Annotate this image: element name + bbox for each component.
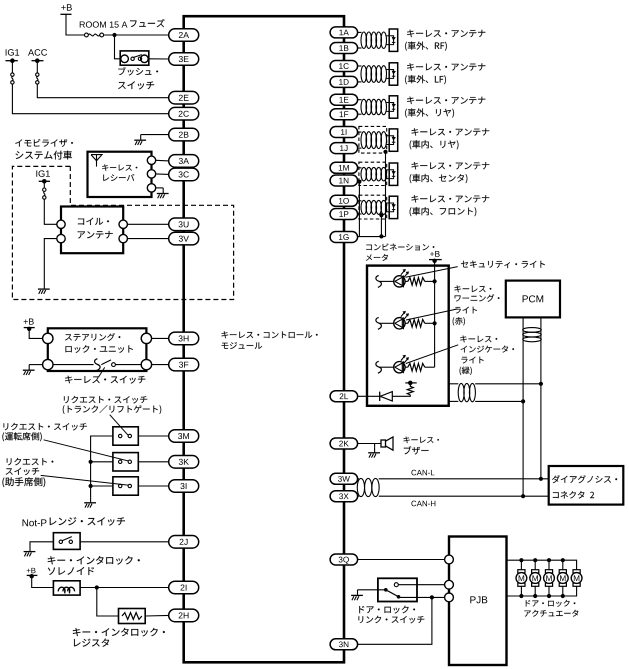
wire node to push switch (115, 35, 121, 59)
wire pin 1J to coil (358, 147, 362, 149)
wire receiver to ground (156, 187, 164, 189)
pin 1P (330, 209, 358, 220)
dashed box interior antenna 6 (359, 195, 387, 219)
wire pin 1P to coil (358, 213, 362, 215)
junction dot meter row 2 (433, 321, 437, 325)
keyless receiver box (88, 152, 152, 197)
wire request switches common (91, 436, 113, 497)
combination meter box (367, 266, 449, 406)
pin 3Q (330, 554, 358, 565)
twisted pair coil antenna 4 (361, 132, 367, 149)
pin 1G (330, 232, 358, 243)
dashed box interior antenna 4 (359, 126, 387, 153)
wire 1J return junction (385, 150, 387, 236)
wire coil antenna to pin 3U (127, 223, 169, 225)
wire pin 1G common return (358, 236, 386, 238)
wire motor 1 stubs (520, 560, 522, 570)
power IG1 (immobilizer) (36, 170, 50, 177)
pin 1N (330, 175, 358, 186)
junction dot request 3 (89, 484, 93, 488)
ground at coil antenna (38, 284, 50, 294)
wire receiver to pin 3C (156, 173, 170, 176)
twisted pair meter-PCM (458, 383, 464, 401)
pin 3U (169, 218, 199, 231)
label: keyless antenna 1 (407, 30, 485, 37)
leader/lever request switch 2 (44, 440, 129, 461)
inductor tap in meter (407, 383, 413, 395)
door lock link switch box (378, 578, 417, 601)
wire pin 1C to coil (358, 65, 362, 67)
door lock actuator motor M4 (559, 570, 566, 573)
wire pair bottom to PCM drop (475, 400, 523, 402)
leader keyless warning light (406, 309, 458, 320)
connector on ACC wire (36, 73, 39, 76)
label: keyless antenna 6 (412, 195, 490, 202)
label: request switch (trunk/liftgate) (64, 396, 147, 404)
request switch 2 contacts (119, 460, 122, 463)
wire receiver to pin 3A (156, 159, 170, 162)
label: keyless antenna 3 (407, 97, 485, 104)
keyless antenna unit 2 (389, 63, 398, 85)
twisted pair coil antenna 1 (361, 32, 367, 48)
wire pin 1B to coil (358, 47, 362, 49)
label: door lock actuator (526, 600, 576, 607)
label: keyless antenna 4 (412, 128, 490, 135)
leader keyless indicator light (406, 345, 458, 364)
label: keyless indicator light (green) (460, 336, 497, 343)
wire steering lock to pin 3H (152, 337, 170, 339)
ground at request switches (84, 497, 96, 507)
pin 2I (169, 581, 199, 594)
squiggle lead security light (376, 276, 382, 288)
junction dot meter row 1 (433, 279, 437, 283)
steering lock terminal circles (43, 333, 53, 343)
door lock actuator motor M1 (518, 570, 525, 573)
label: door lock link switch (359, 606, 415, 614)
label: keyless warning light (red) (454, 285, 491, 292)
pin 1J (330, 143, 358, 154)
label: push switch (118, 67, 158, 75)
request switch 1 contacts (119, 434, 122, 437)
wire meter to PCM pair top (449, 383, 459, 385)
PJB terminal circles (445, 555, 454, 564)
squiggle lead keyless indicator light (376, 361, 382, 373)
label: keyless antenna 5 (412, 162, 490, 169)
power IG1 (6, 49, 20, 56)
wire LED to resistor (security) (405, 280, 408, 282)
diagnosis connector 2 box (549, 466, 624, 505)
wire motor 2 stubs (534, 560, 536, 570)
wire pin 2K to buzzer (358, 443, 382, 445)
pin 2J (169, 536, 199, 549)
wire pin 1D to coil (358, 81, 362, 83)
junction dot motor 2 top (533, 558, 537, 562)
twisted pair CAN (357, 478, 364, 496)
ground at 2B (134, 135, 146, 145)
wire 1P return junction (380, 214, 382, 236)
label: Not-P range switch (23, 519, 47, 526)
resistor R1 zigzag (122, 613, 142, 620)
label: keyless buzzer (404, 437, 439, 444)
pin 3I (169, 480, 199, 493)
wire to security light (379, 280, 393, 282)
pin 1E (330, 94, 358, 105)
resistor of keyless indicator light (408, 363, 425, 371)
pin 3V (169, 232, 199, 245)
power +B (key interlock) (27, 568, 36, 573)
door lock actuator bottom rail (507, 586, 577, 596)
ground stub at buzzer (374, 444, 376, 448)
wire coil to antenna unit 6 (386, 202, 389, 204)
coil antenna box (61, 207, 123, 254)
pin 3F (169, 358, 199, 371)
pin 3C (169, 168, 199, 181)
wire pin 2L to diode (358, 395, 380, 397)
pin 1C (330, 61, 358, 72)
power +B (room fuse feed) (61, 4, 72, 10)
push switch S1 right terminal (141, 55, 149, 63)
wire coil to antenna unit 1 (386, 35, 389, 37)
twisted pair coil antenna 3 (361, 99, 367, 114)
junction dot solenoid node (95, 585, 99, 589)
pin 2H (169, 609, 199, 622)
label: combination meter (366, 243, 434, 250)
request switch 1 box (113, 427, 138, 445)
wire pin 1M to coil (358, 167, 362, 169)
leader security light (406, 267, 458, 278)
keyless buzzer BZ1 (381, 440, 386, 447)
label: keyless control module (222, 331, 318, 338)
pin 3X (330, 491, 358, 502)
label: request switch (passenger side) (7, 458, 54, 465)
wire resistor to +B rail (security) (425, 280, 435, 282)
ground at buzzer (368, 447, 380, 457)
Not-P range switch contacts and lever (59, 540, 62, 543)
squiggle lead keyless warning light (376, 317, 382, 329)
twisted pair coil antenna 2 (361, 66, 367, 83)
ground at Not-P switch (24, 546, 36, 556)
junction dot 1G return (379, 234, 383, 238)
wire node to resistor (97, 588, 119, 617)
wire ACC to pin 2E (37, 84, 169, 98)
receiver terminal circles (147, 156, 155, 164)
label: with immobilizer system (15, 139, 73, 147)
wire resistor to +B rail (keyless warning) (425, 322, 435, 324)
wire PCM drop right (540, 317, 542, 478)
request switch 3 box (113, 477, 138, 495)
twisted pair below PCM (523, 328, 542, 333)
wire coil to antenna unit 3 (386, 102, 389, 104)
wire resistor to pin 2H (145, 614, 169, 617)
coil antenna terminal circles (57, 220, 65, 228)
label: keyless receiver (102, 164, 137, 171)
wire fuse to pin 2A (104, 34, 170, 36)
keyless switch squiggle (95, 359, 101, 371)
pin 3E (169, 53, 199, 66)
pin 2A (169, 29, 199, 42)
PCM box (506, 281, 560, 318)
pin 1D (330, 76, 358, 87)
wire steering lock to ground (29, 364, 42, 366)
junction dot pair top (539, 382, 543, 386)
wire solenoid to pin 2I (80, 587, 169, 589)
junction dot motor 3 bottom (547, 594, 551, 598)
wire request switch 2 branch (91, 461, 113, 463)
wire request switch 2 to pin 3K (138, 461, 169, 463)
wire resistor to +B rail (keyless indicator) (425, 366, 435, 368)
key interlock solenoid L1 box (53, 581, 80, 595)
junction dot motor 4 top (561, 558, 565, 562)
leader/lever request switch 3 (41, 475, 129, 485)
wire pin 1A to coil (358, 31, 362, 33)
wire coil to antenna unit 4 (386, 135, 389, 137)
wire pin 3W stub (358, 478, 360, 480)
keyless antenna unit 1 (389, 29, 398, 51)
pin 3A (169, 155, 199, 168)
push switch S1 left terminal (121, 55, 129, 63)
wire diode to coil symbol (392, 395, 410, 396)
wire motor 3 stubs (548, 560, 550, 570)
wire pin 1E to coil (358, 99, 362, 101)
wire S1 to pin 3E (148, 58, 169, 60)
wire node to pin 3N (358, 597, 432, 644)
LED keyless warning light (394, 318, 405, 329)
wire Not-P switch to pin 2J (80, 541, 169, 543)
Not-P range switch box (53, 533, 80, 550)
twisted pair coil antenna 5 (361, 167, 367, 181)
wire link switch to PJB 2 (398, 584, 444, 586)
dashed box interior antenna 5 (359, 162, 387, 185)
pin 1A (330, 27, 358, 38)
junction dot CAN-L (539, 477, 543, 481)
pin 2K (330, 438, 358, 449)
link switch throw contact (394, 583, 398, 587)
junction dot motor 4 bottom (561, 594, 565, 598)
keyless antenna unit 3 (389, 96, 398, 118)
keyless switch wire right (115, 364, 141, 366)
wire meter to PCM pair bottom (449, 400, 459, 402)
wire request switch 3 to pin 3I (138, 485, 169, 487)
wire IG1 imm to coil antenna (44, 199, 57, 224)
pin 3K (169, 456, 199, 469)
wire motor 4 stubs (562, 560, 564, 570)
junction dot link switch node (430, 595, 434, 599)
pin 3M (169, 430, 199, 443)
power ACC (28, 49, 47, 56)
wire 1N return junction (358, 181, 360, 237)
ground at receiver (157, 188, 169, 198)
wire to keyless indicator light (379, 366, 393, 368)
wire steering lock to pin 3F (152, 364, 170, 366)
wire IG1 down (11, 61, 13, 73)
label: PJB (470, 596, 487, 603)
junction dot motor 1 top (519, 558, 523, 562)
label: security light (461, 261, 545, 268)
door lock actuator motor M2 (532, 570, 539, 573)
label: ROOM 15 A fuse (80, 21, 128, 27)
request switch 3 contacts (119, 484, 122, 487)
wire +B rail in meter (434, 261, 436, 367)
wire +B to fuse (66, 14, 85, 35)
resistor of keyless warning light (408, 320, 425, 328)
twisted pair coil antenna 6 (361, 200, 367, 214)
pin 2E (169, 91, 199, 104)
wire pin 1O to coil (358, 200, 362, 202)
antenna symbol of receiver (91, 155, 102, 161)
pin 3N (330, 639, 358, 650)
power +B (steering lock) (24, 319, 34, 325)
LED keyless indicator light (394, 362, 405, 373)
pin 1I (330, 127, 358, 138)
keyless switch wire left (53, 364, 94, 366)
keyless antenna unit 5 (389, 163, 398, 185)
wire request switch 3 branch (91, 485, 113, 487)
PJB box (449, 537, 507, 666)
junction dot pair bottom (521, 399, 525, 403)
label: PCM (523, 295, 544, 302)
steering lock unit box (48, 328, 147, 371)
key interlock resistor R1 box (119, 609, 146, 624)
wire coil to antenna unit 2 (386, 69, 389, 71)
label: keyless switch (65, 376, 145, 384)
wire IG1 imm down (43, 181, 45, 188)
label: key interlock resistor (73, 628, 165, 637)
wire pin 1F to coil (358, 113, 362, 115)
door lock actuator top rail (507, 560, 577, 570)
resistor of security light (408, 278, 425, 286)
label: coil antenna (78, 218, 109, 225)
pin 2L (330, 391, 358, 402)
label: keyless antenna 2 (407, 63, 485, 70)
pin 1M (330, 162, 358, 173)
wire CAN-L (379, 478, 549, 480)
wire pin 2B to ground (141, 134, 170, 136)
push switch S1 box (120, 51, 149, 65)
push switch S1 contacts and lever (131, 57, 134, 60)
junction dot motor 2 bottom (533, 594, 537, 598)
request switch 2 box (113, 453, 138, 471)
label: key interlock solenoid (48, 556, 140, 565)
wire pin 1I to coil (358, 131, 362, 133)
wire to keyless warning light (379, 322, 393, 324)
pin 1O (330, 195, 358, 206)
keyless antenna unit 6 (389, 196, 398, 218)
LED security light (394, 276, 405, 287)
wire LED to resistor (keyless indicator) (405, 366, 408, 368)
wire link switch to ground (358, 589, 386, 591)
wire LED to resistor (keyless warning) (405, 322, 408, 324)
junction dot motor 3 top (547, 558, 551, 562)
keyless switch lever and contact (101, 360, 111, 365)
wire +B to solenoid (32, 576, 54, 587)
wire pin 3X stub (358, 495, 360, 497)
wire IG1 to pin 2C (12, 84, 169, 114)
wire ACC down (36, 61, 38, 73)
wire request switch 1 to pin 3M (138, 435, 169, 437)
wire CAN-H (379, 495, 549, 497)
connector on IG1 wire (11, 73, 14, 76)
pin 2C (169, 107, 199, 120)
wire coil antenna to ground (44, 239, 57, 284)
pin 3H (169, 332, 199, 345)
pin 3W (330, 473, 358, 484)
junction dot request 2 (89, 460, 93, 464)
junction dot fuse node (112, 33, 116, 37)
ground at steering lock (23, 365, 35, 375)
label: CAN-L (411, 470, 434, 476)
pin 2B (169, 128, 199, 141)
leader/lever request switch 1 (110, 415, 129, 436)
wire coil antenna to pin 3V (127, 238, 169, 240)
diode D1 in meter (379, 392, 381, 401)
pin 1B (330, 43, 358, 54)
junction dot motor 1 bottom (519, 594, 523, 598)
solenoid coil symbol (58, 587, 74, 591)
label: steering lock unit (65, 333, 120, 341)
immobilizer variant dashed outline (12, 166, 233, 299)
wire pair top to PCM drop (475, 383, 541, 385)
junction dot CAN-H (521, 494, 525, 498)
pin 1F (330, 109, 358, 120)
label: request switch (driver side) (3, 423, 86, 431)
link switch pivot and lever (384, 588, 388, 592)
door lock actuator motor M3 (545, 570, 552, 573)
wire PCM drop left (522, 317, 524, 496)
power +B (combination meter) (430, 251, 440, 257)
wire coil to antenna unit 5 (386, 169, 389, 171)
wire +B to steering lock (29, 329, 42, 339)
wire link switch to PJB 3 (399, 596, 445, 598)
door lock actuator motor M5 (573, 570, 580, 573)
connector on IG1 imm wire (43, 188, 46, 191)
ground at link switch (351, 590, 363, 600)
wire pin 1N to coil (358, 180, 362, 182)
label: diagnosis connector 2 (552, 475, 617, 483)
wire Not-P switch to ground (30, 542, 53, 546)
wire pin 3Q to PJB (358, 559, 445, 561)
fuse F1 ROOM 15A (85, 33, 89, 37)
label: CAN-H (411, 501, 435, 507)
keyless antenna unit 4 (389, 129, 398, 151)
keyless control module box U1 (184, 16, 344, 662)
